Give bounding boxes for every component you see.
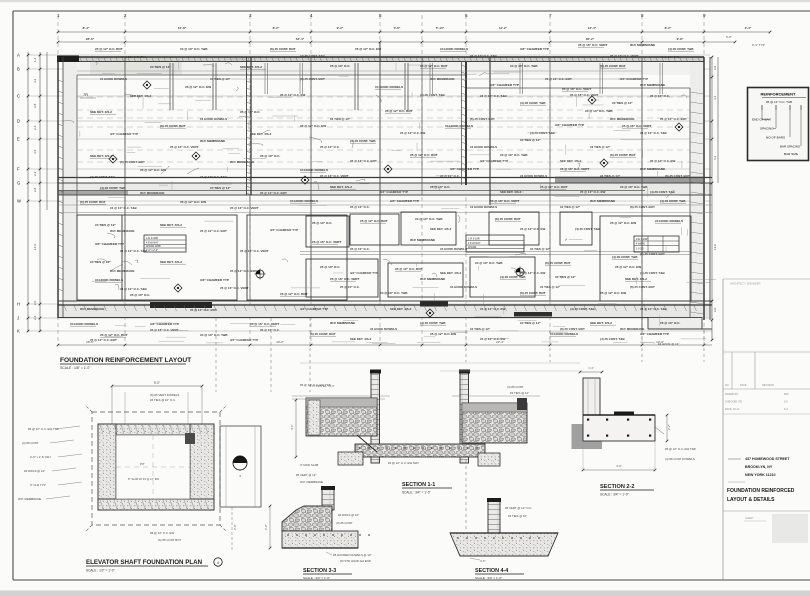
svg-text:#5 VERT @ 12" O.C.: #5 VERT @ 12" O.C. xyxy=(505,506,532,510)
shaft wall ring xyxy=(98,424,214,510)
svg-text:#4 HOOK DOWELS: #4 HOOK DOWELS xyxy=(450,285,477,289)
section1 right column xyxy=(459,370,470,464)
legend box reinforcement key xyxy=(748,88,809,161)
svg-text:(4) #6 CONT. T&B: (4) #6 CONT. T&B xyxy=(600,337,626,341)
svg-text:#5 @ 16" O.C. VERT: #5 @ 16" O.C. VERT xyxy=(170,145,199,149)
top wall inner line xyxy=(58,61,704,63)
svg-text:437 HOMEWOOD STREET: 437 HOMEWOOD STREET xyxy=(745,457,790,461)
svg-text:4'-6": 4'-6" xyxy=(480,559,486,563)
svg-text:16'-8": 16'-8" xyxy=(178,26,187,30)
svg-text:SEE DET. 4/S-2: SEE DET. 4/S-2 xyxy=(560,159,582,163)
svg-text:2-4: 2-4 xyxy=(33,315,37,320)
svg-text:7R: 7R xyxy=(83,92,88,97)
svg-text:3" MUD SLAB: 3" MUD SLAB xyxy=(300,463,318,467)
svg-text:#5 @ 12" O.C. EW: #5 @ 12" O.C. EW xyxy=(520,227,546,231)
room outlines xyxy=(77,212,691,301)
svg-text:#4 TIES @ 12": #4 TIES @ 12" xyxy=(210,77,231,81)
svg-text:NO OF BARS: NO OF BARS xyxy=(766,136,785,140)
svg-text:#4 HOOK DOWELS: #4 HOOK DOWELS xyxy=(100,77,127,81)
svg-text:NEW YORK 11210: NEW YORK 11210 xyxy=(745,473,776,477)
section4 grid extension xyxy=(465,460,467,532)
svg-text:#4 @ 10" O.C. T&B: #4 @ 10" O.C. T&B xyxy=(640,131,668,135)
section2 top dim xyxy=(579,366,604,373)
svg-text:#5 @ 10" O.C.: #5 @ 10" O.C. xyxy=(660,55,680,59)
svg-text:30'-2": 30'-2" xyxy=(586,37,595,41)
section4 label xyxy=(475,568,524,580)
svg-text:W.P. MEMBRANE: W.P. MEMBRANE xyxy=(610,117,634,121)
svg-text:#5 @ 12" O.C. BOT: #5 @ 12" O.C. BOT xyxy=(95,47,123,51)
section1 dim left xyxy=(290,399,297,459)
svg-text:#5 @ 16" O.C. VERT: #5 @ 16" O.C. VERT xyxy=(320,174,349,178)
svg-text:#5 @ 10" O.C.: #5 @ 10" O.C. xyxy=(260,328,280,332)
svg-text:H: H xyxy=(17,302,20,307)
svg-text:(4) #6 CONT. T&B: (4) #6 CONT. T&B xyxy=(570,307,596,311)
svg-text:3/4" CHAMFER TYP: 3/4" CHAMFER TYP xyxy=(640,332,669,336)
svg-text:#5 VERT @ 12": #5 VERT @ 12" xyxy=(296,473,316,477)
svg-text:FOUNDATION REINFORCEMENT LAYOU: FOUNDATION REINFORCEMENT LAYOUT xyxy=(60,357,191,364)
svg-text:#4 @ 10" O.C. T&B: #4 @ 10" O.C. T&B xyxy=(480,94,508,98)
svg-text:W/ STD HOOK EA END: W/ STD HOOK EA END xyxy=(340,559,371,563)
svg-text:#4 TIES @ 12": #4 TIES @ 12" xyxy=(560,205,581,209)
shaft plan title xyxy=(86,558,222,573)
svg-text:#5 @ 12" O.C. EW: #5 @ 12" O.C. EW xyxy=(140,168,166,172)
svg-text:9'-8": 9'-8" xyxy=(677,37,684,41)
svg-text:#5 @ 12" O.C. BOT: #5 @ 12" O.C. BOT xyxy=(385,109,413,113)
title block lower xyxy=(723,511,810,543)
svg-text:#4 HOOK DOWELS: #4 HOOK DOWELS xyxy=(370,327,397,331)
svg-text:SEE DET. 4/S-2: SEE DET. 4/S-2 xyxy=(160,260,182,264)
svg-text:#4 TIES @ 12": #4 TIES @ 12" xyxy=(520,321,541,325)
section3 label xyxy=(303,568,352,580)
svg-text:SCALE : 1/8" = 1'-0": SCALE : 1/8" = 1'-0" xyxy=(60,366,91,370)
svg-text:4'-6": 4'-6" xyxy=(290,424,294,430)
svg-text:#4 TIES @ 12": #4 TIES @ 12" xyxy=(540,285,561,289)
shaft inner cross lines xyxy=(116,435,190,499)
svg-text:#5 @ 16" O.C. VERT: #5 @ 16" O.C. VERT xyxy=(490,199,520,203)
svg-text:SEE DET. 4/S-2: SEE DET. 4/S-2 xyxy=(130,94,152,98)
top wall fill xyxy=(58,57,704,61)
svg-text:SEE DET. 4/S-2: SEE DET. 4/S-2 xyxy=(240,65,262,69)
svg-text:#4 @ 10" O.C. T&B: #4 @ 10" O.C. T&B xyxy=(475,261,503,265)
svg-text:#4 HOOK DOWELS: #4 HOOK DOWELS xyxy=(470,205,497,209)
section2 footing xyxy=(583,415,655,441)
svg-text:28'-6": 28'-6" xyxy=(86,37,95,41)
bottom wall band xyxy=(58,305,712,318)
svg-text:#5 @ 12" O.C. BOT: #5 @ 12" O.C. BOT xyxy=(260,191,287,195)
bottom dimension line xyxy=(57,340,712,346)
svg-text:MW: MW xyxy=(784,393,789,396)
plan annotation texts xyxy=(70,43,694,337)
section1 right pad xyxy=(478,453,500,466)
svg-text:#5 @ 12" O.C. EW: #5 @ 12" O.C. EW xyxy=(615,265,641,269)
svg-text:#4 HOOK DOWELS: #4 HOOK DOWELS xyxy=(300,168,328,172)
top wall pilaster stubs xyxy=(170,63,663,110)
svg-text:#4 @ 10" O.C. T&B: #4 @ 10" O.C. T&B xyxy=(120,287,148,291)
svg-text:3'-4" TYP: 3'-4" TYP xyxy=(752,43,765,47)
svg-text:SEE DET. 4/S-2: SEE DET. 4/S-2 xyxy=(390,307,412,311)
svg-text:3/4" CHAMFER TYP: 3/4" CHAMFER TYP xyxy=(380,190,408,194)
svg-text:(4) #6 CONT DOWELS: (4) #6 CONT DOWELS xyxy=(665,457,695,461)
right wall outer line xyxy=(703,57,705,320)
svg-text:#4 HOOK DOWELS: #4 HOOK DOWELS xyxy=(550,332,578,336)
mid corridor band xyxy=(58,183,712,195)
svg-text:2'-2": 2'-2" xyxy=(667,424,671,430)
svg-text:#5 @ 12" O.C. EW: #5 @ 12" O.C. EW xyxy=(430,332,456,336)
svg-text:#5 @ 12" O.C. EW: #5 @ 12" O.C. EW xyxy=(280,93,306,97)
svg-text:D: D xyxy=(17,119,20,124)
svg-text:(4) #6 CONT. T&B: (4) #6 CONT. T&B xyxy=(650,190,676,194)
corridor between room rows xyxy=(300,252,690,255)
left wall rebar ticks xyxy=(59,80,64,291)
section1 left pad xyxy=(338,452,363,465)
svg-text:#4 @ 10" O.C. T&B: #4 @ 10" O.C. T&B xyxy=(640,307,668,311)
svg-text:#4 @ 10" O.C. T&B: #4 @ 10" O.C. T&B xyxy=(620,185,648,189)
svg-text:J: J xyxy=(17,316,19,321)
svg-text:#5 @ 12" O.C. EW: #5 @ 12" O.C. EW xyxy=(580,190,606,194)
svg-text:(4) #6 CONT. T&B: (4) #6 CONT. T&B xyxy=(575,227,601,231)
section1 rebar dots xyxy=(359,447,478,449)
interior wall x250 double xyxy=(247,57,252,301)
svg-text:#5 @ 12" O.C. BOT: #5 @ 12" O.C. BOT xyxy=(660,117,687,121)
svg-text:(6) #5 CONT. BOT: (6) #5 CONT. BOT xyxy=(310,332,336,336)
svg-text:#4 HOOK DOWELS: #4 HOOK DOWELS xyxy=(290,199,318,203)
svg-text:#5 @ 10" O.C. EW T&B: #5 @ 10" O.C. EW T&B xyxy=(665,447,696,451)
right wall hatch ticks xyxy=(691,92,705,314)
svg-text:3/4" CHAMFER TYP: 3/4" CHAMFER TYP xyxy=(450,167,479,171)
svg-text:(4) #6 CONT. T&B: (4) #6 CONT. T&B xyxy=(100,186,126,190)
left wall outer line xyxy=(57,57,59,318)
left wall footing band xyxy=(63,57,78,318)
svg-text:#5 @ 16" O.C. VERT: #5 @ 16" O.C. VERT xyxy=(622,124,652,128)
plan title xyxy=(60,357,191,370)
svg-text:2-0: 2-0 xyxy=(713,307,717,312)
svg-text:#5 @ 12" O.C. EW: #5 @ 12" O.C. EW xyxy=(600,291,626,295)
svg-text:8'-4": 8'-4" xyxy=(83,26,90,30)
svg-text:(6) #5 CONT. BOT: (6) #5 CONT. BOT xyxy=(560,327,585,331)
svg-text:#5 @ 12" O.C. EW: #5 @ 12" O.C. EW xyxy=(185,85,211,89)
svg-text:4 6"x8 W-6": 4 6"x8 W-6" xyxy=(468,242,481,245)
svg-text:3/4" CHAMFER TYP: 3/4" CHAMFER TYP xyxy=(95,242,124,246)
svg-text:#4 @ 10" O.C. T&B: #4 @ 10" O.C. T&B xyxy=(110,206,138,210)
svg-text:(6) #5 CONT. BOT: (6) #5 CONT. BOT xyxy=(160,124,186,128)
bottom wall heavy segment 3 xyxy=(514,312,552,317)
svg-text:3/4" CHAMFER TYP: 3/4" CHAMFER TYP xyxy=(300,307,328,311)
svg-text:3/4" CHAMFER TYP: 3/4" CHAMFER TYP xyxy=(150,322,179,326)
section1 label xyxy=(402,482,452,495)
svg-text:BAR SIZE: BAR SIZE xyxy=(784,152,798,156)
svg-text:K: K xyxy=(17,329,20,334)
interior heavy line x466 xyxy=(462,62,467,185)
svg-text:#5 @ 12" O.C. EW: #5 @ 12" O.C. EW xyxy=(480,307,506,311)
section4 column xyxy=(487,498,501,533)
shaft wall hatch ticks xyxy=(100,425,208,510)
svg-text:W.P. MEMBRANE: W.P. MEMBRANE xyxy=(110,269,134,273)
top footing interior edge xyxy=(77,75,690,88)
grid line numbers xyxy=(57,13,706,18)
svg-text:#5 @ 10" O.C.: #5 @ 10" O.C. xyxy=(350,247,370,251)
svg-text:4: 4 xyxy=(217,561,219,565)
interior wall line x490 xyxy=(489,57,491,205)
top-left revision mark xyxy=(80,92,96,98)
svg-text:SEE DET. 4/S-2: SEE DET. 4/S-2 xyxy=(250,132,272,136)
svg-text:NO: NO xyxy=(725,384,729,387)
svg-text:#5 @ 16" O.C. VERT: #5 @ 16" O.C. VERT xyxy=(562,87,592,91)
shaft top dimension xyxy=(111,381,204,424)
svg-text:28'-6": 28'-6" xyxy=(86,340,94,344)
plan annotation texts batch2 xyxy=(80,54,690,342)
left wall inner line xyxy=(62,57,64,318)
svg-text:L-R 3-10R: L-R 3-10R xyxy=(146,236,158,240)
svg-text:#5 @ 12" O.C. BOT: #5 @ 12" O.C. BOT xyxy=(410,153,438,157)
section1 ground lines xyxy=(292,396,540,399)
svg-text:(6) #5 CONT BOT: (6) #5 CONT BOT xyxy=(158,538,181,542)
svg-text:2-0: 2-0 xyxy=(33,300,37,305)
svg-text:8" SLAB W/ #4 @ 12" EW: 8" SLAB W/ #4 @ 12" EW xyxy=(128,477,160,481)
misc short segments xyxy=(76,58,716,326)
slab reinforcement dashed lines xyxy=(77,97,690,162)
svg-text:#5 @ 16" O.C. VERT: #5 @ 16" O.C. VERT xyxy=(230,206,259,210)
svg-text:#4 HOOK DOWELS: #4 HOOK DOWELS xyxy=(470,145,497,149)
svg-text:W: W xyxy=(17,199,21,204)
svg-text:#5 @ 10" O.C.: #5 @ 10" O.C. xyxy=(130,293,150,297)
svg-text:#5 @ 10" O.C.: #5 @ 10" O.C. xyxy=(340,285,360,289)
horizontal grid lines xyxy=(28,55,712,331)
svg-text:#4 TIES @ 12": #4 TIES @ 12" xyxy=(590,145,611,149)
svg-text:3/4" CHAMFER TYP: 3/4" CHAMFER TYP xyxy=(230,338,258,342)
svg-text:#5 @ 12" O.C. EW: #5 @ 12" O.C. EW xyxy=(120,55,146,59)
svg-text:4-2: 4-2 xyxy=(33,78,37,83)
room divider x122 xyxy=(121,215,123,300)
svg-text:(6) #5 CONT. BOT: (6) #5 CONT. BOT xyxy=(300,77,325,81)
svg-text:SECTION 3-3: SECTION 3-3 xyxy=(303,568,336,574)
svg-text:3/4" CHAMFER TYP: 3/4" CHAMFER TYP xyxy=(200,278,229,282)
svg-text:#4 @ 10" O.C. T&B: #4 @ 10" O.C. T&B xyxy=(500,153,528,157)
svg-text:SEE DET. 4/S-2: SEE DET. 4/S-2 xyxy=(350,337,372,341)
svg-text:#5 @ 16" O.C. VERT: #5 @ 16" O.C. VERT xyxy=(312,240,342,244)
svg-text:(6) #5 CONT. BOT: (6) #5 CONT. BOT xyxy=(600,64,626,68)
svg-text:(4) #6 CONT. T&B: (4) #6 CONT. T&B xyxy=(90,175,116,179)
svg-text:SHEET: SHEET xyxy=(745,516,754,520)
bottom wall mid line xyxy=(58,304,712,306)
svg-text:#5 @ 16" O.C. VERT: #5 @ 16" O.C. VERT xyxy=(570,93,599,97)
svg-text:#4 @ 10" O.C. T&B: #4 @ 10" O.C. T&B xyxy=(200,333,228,337)
svg-text:8'-2": 8'-2" xyxy=(665,26,672,30)
mid wall upper pair xyxy=(58,178,712,184)
svg-text:#4 @ 10" O.C. T&B: #4 @ 10" O.C. T&B xyxy=(180,47,208,51)
svg-text:W.P. MEMBRANE: W.P. MEMBRANE xyxy=(590,199,615,203)
svg-text:W.P. MEMBRANE: W.P. MEMBRANE xyxy=(620,327,644,331)
svg-text:#5 @ 16" O.C. VERT: #5 @ 16" O.C. VERT xyxy=(330,277,360,281)
section2 gray shadow xyxy=(572,424,603,449)
svg-text:ARCHITECT / ENGINEER: ARCHITECT / ENGINEER xyxy=(730,282,761,286)
svg-text:#5 @ 16" O.C. VERT: #5 @ 16" O.C. VERT xyxy=(220,286,249,290)
svg-text:#4 TIES @ 12": #4 TIES @ 12" xyxy=(95,223,116,227)
corridor lower lines xyxy=(58,205,712,213)
svg-text:A: A xyxy=(17,53,20,58)
svg-text:#4 TIES @ 12": #4 TIES @ 12" xyxy=(90,260,111,264)
interior wall line x642 xyxy=(641,57,643,330)
svg-text:#4 TIES @ 12": #4 TIES @ 12" xyxy=(600,174,621,178)
section2 bottom dim xyxy=(582,441,657,471)
svg-text:2-8: 2-8 xyxy=(33,187,37,192)
svg-text:(6) #5 CONT. BOT: (6) #5 CONT. BOT xyxy=(495,217,521,221)
svg-text:3/4" CHAMFER TYP: 3/4" CHAMFER TYP xyxy=(270,228,298,232)
svg-text:3-8: 3-8 xyxy=(33,103,37,108)
svg-text:#4 TIES @ 10": #4 TIES @ 10" xyxy=(508,514,527,518)
svg-text:3" CLR TYP: 3" CLR TYP xyxy=(30,483,46,487)
svg-text:3/4" CHAMFER TYP: 3/4" CHAMFER TYP xyxy=(490,83,519,87)
svg-text:3/4" CHAMFER TYP: 3/4" CHAMFER TYP xyxy=(110,132,138,136)
svg-text:W.P. MEMBRANE: W.P. MEMBRANE xyxy=(630,43,655,47)
circle symbols xyxy=(255,267,526,280)
svg-text:W.P. MEMBRANE: W.P. MEMBRANE xyxy=(140,191,164,195)
svg-text:C: C xyxy=(17,94,20,99)
svg-text:2'-8": 2'-8" xyxy=(233,524,237,530)
svg-text:#5 @ 12" O.C. EW: #5 @ 12" O.C. EW xyxy=(300,124,326,128)
svg-text:REINFORCEMENT: REINFORCEMENT xyxy=(761,92,796,97)
title block address xyxy=(728,457,790,482)
svg-text:#4 TIES @ 10" O.C.: #4 TIES @ 10" O.C. xyxy=(150,398,176,402)
svg-text:W4xW4 WWF: W4xW4 WWF xyxy=(146,245,162,248)
top wall rebar ticks xyxy=(80,58,700,62)
left footing interior edge xyxy=(76,75,78,300)
section1 left column xyxy=(370,370,381,464)
section3 slab xyxy=(282,531,358,548)
svg-text:4-6: 4-6 xyxy=(33,149,37,154)
svg-text:14-6: 14-6 xyxy=(33,244,37,250)
svg-text:SEE DET. 4/S-2: SEE DET. 4/S-2 xyxy=(90,154,112,158)
vertical grid lines xyxy=(58,15,704,345)
svg-text:#4 HOOK DOWELS: #4 HOOK DOWELS xyxy=(520,174,547,178)
svg-text:(6) #5 CONT. BOT: (6) #5 CONT. BOT xyxy=(470,117,495,121)
svg-text:#5 @ 12" O.C. BOT: #5 @ 12" O.C. BOT xyxy=(90,338,117,342)
title block frame xyxy=(723,279,810,580)
svg-text:1/8: 1/8 xyxy=(784,401,788,404)
svg-text:SEE DET. 4/S-2: SEE DET. 4/S-2 xyxy=(330,185,352,189)
svg-text:BROOKLYN, NY: BROOKLYN, NY xyxy=(745,465,773,469)
svg-text:S-2: S-2 xyxy=(784,408,789,411)
svg-text:W.P. MEMBRANE: W.P. MEMBRANE xyxy=(80,307,104,311)
svg-text:#5 @ 10" O.C.: #5 @ 10" O.C. xyxy=(320,265,340,269)
svg-text:3/4" CHAMFER TYP: 3/4" CHAMFER TYP xyxy=(480,159,508,163)
right wall interior edge xyxy=(689,88,691,320)
svg-text:#5 @ 12" O.C. EW: #5 @ 12" O.C. EW xyxy=(150,531,174,535)
svg-text:2'-8": 2'-8" xyxy=(264,524,268,530)
leader lines xyxy=(62,61,687,290)
svg-text:#5 @ 16" O.C. VERT: #5 @ 16" O.C. VERT xyxy=(250,322,280,326)
svg-text:(4) #6 CONT. T&B: (4) #6 CONT. T&B xyxy=(640,271,666,275)
svg-text:DATE: 04-12: DATE: 04-12 xyxy=(725,408,740,411)
svg-text:SCALE : 1/2" = 1'-0": SCALE : 1/2" = 1'-0" xyxy=(86,569,115,573)
svg-text:(8) #6 VERT DOWELS: (8) #6 VERT DOWELS xyxy=(150,393,179,397)
svg-text:#4 TIES @ 12": #4 TIES @ 12" xyxy=(530,247,551,251)
svg-text:SCALE : 3/4" = 1'-0": SCALE : 3/4" = 1'-0" xyxy=(402,491,431,495)
mid wall dark segment right xyxy=(555,177,705,184)
svg-text:(4) #6 CONT. T&B: (4) #6 CONT. T&B xyxy=(612,255,638,259)
section3 notes xyxy=(296,473,372,563)
svg-text:1-4: 1-4 xyxy=(33,57,37,62)
svg-text:#4 TIES @ 12": #4 TIES @ 12" xyxy=(612,101,633,105)
svg-text:#5 @ 10" O.C.: #5 @ 10" O.C. xyxy=(350,205,370,209)
svg-text:W.P. MEMBRANE: W.P. MEMBRANE xyxy=(640,83,665,87)
svg-text:(4) #6 CONT. T&B: (4) #6 CONT. T&B xyxy=(420,93,446,97)
schedule table left xyxy=(144,235,186,252)
svg-text:SEE DET. 4/S-2: SEE DET. 4/S-2 xyxy=(90,110,112,114)
section2 side notes xyxy=(640,342,696,461)
svg-text:#5 @ 12" O.C. BOT: #5 @ 12" O.C. BOT xyxy=(230,269,257,273)
svg-text:PIT: PIT xyxy=(140,462,145,466)
svg-text:#4 @ 10" O.C. T&B: #4 @ 10" O.C. T&B xyxy=(200,175,228,179)
section3 column xyxy=(321,486,335,510)
svg-text:#4 @ 10" O.C. T&B: #4 @ 10" O.C. T&B xyxy=(470,54,498,58)
svg-text:#4 HOOK DOWELS: #4 HOOK DOWELS xyxy=(445,124,473,128)
svg-text:(6) #5 CONT. BOT: (6) #5 CONT. BOT xyxy=(640,252,665,256)
svg-text:W.P. MEMBRANE: W.P. MEMBRANE xyxy=(430,77,454,81)
keyed note diamonds xyxy=(109,81,683,317)
svg-text:#5 @ 10" O.C.: #5 @ 10" O.C. xyxy=(650,94,670,98)
svg-text:3'-4": 3'-4" xyxy=(745,26,752,30)
svg-text:SPACING: SPACING xyxy=(760,127,774,131)
svg-text:#4 @ 10" O.C. T&B: #4 @ 10" O.C. T&B xyxy=(585,109,613,113)
right dimension chain xyxy=(711,56,718,342)
svg-text:#5 @ 16" O.C. VERT: #5 @ 16" O.C. VERT xyxy=(578,43,608,47)
top dimension lines xyxy=(57,26,772,43)
bottom wall heavy segment 1 xyxy=(150,302,212,308)
shaft dark block xyxy=(185,433,195,444)
svg-text:#4 TIES @ 12": #4 TIES @ 12" xyxy=(470,327,491,331)
svg-text:(6) #5 CONT. BOT: (6) #5 CONT. BOT xyxy=(665,174,690,178)
shaft bottom annotations xyxy=(150,507,237,552)
svg-text:3/4" CHAMFER TYP: 3/4" CHAMFER TYP xyxy=(390,199,419,203)
left dimension chain xyxy=(27,52,47,332)
svg-text:6-2: 6-2 xyxy=(713,155,717,160)
svg-text:#5 @ 12" O.C. EW: #5 @ 12" O.C. EW xyxy=(355,47,381,51)
svg-text:#4 TIES @ 12": #4 TIES @ 12" xyxy=(150,65,171,69)
svg-text:#5 @ 12" O.C. EW: #5 @ 12" O.C. EW xyxy=(520,271,546,275)
svg-text:BAR SPACING: BAR SPACING xyxy=(780,145,801,149)
svg-text:SCALE : 3/4" = 1'-0": SCALE : 3/4" = 1'-0" xyxy=(303,576,330,580)
svg-text:(4) #6 CONT. T&B: (4) #6 CONT. T&B xyxy=(300,54,326,58)
svg-text:W.P. MEMBRANE: W.P. MEMBRANE xyxy=(640,167,665,171)
svg-text:#4 TIES @ 12": #4 TIES @ 12" xyxy=(510,391,529,395)
svg-text:(6) #5 CONT. BOT: (6) #5 CONT. BOT xyxy=(630,285,655,289)
svg-text:W.P. MEMBRANE: W.P. MEMBRANE xyxy=(18,497,41,501)
svg-text:#5 @ 10" O.C. EW T&B: #5 @ 10" O.C. EW T&B xyxy=(28,427,59,431)
svg-text:#5 @ 12" O.C. EW: #5 @ 12" O.C. EW xyxy=(180,200,206,204)
bottom wall lower edge xyxy=(58,317,648,319)
section2 black bar xyxy=(614,412,634,416)
svg-text:3/4" CHAMFER TYP: 3/4" CHAMFER TYP xyxy=(520,47,549,51)
svg-text:#4 @ 10" O.C. T&B: #4 @ 10" O.C. T&B xyxy=(510,64,538,68)
svg-text:(3) #6 CONT: (3) #6 CONT xyxy=(22,441,39,445)
section2 right dim xyxy=(655,414,671,443)
svg-text:#4 @ 10" O.C. T&B: #4 @ 10" O.C. T&B xyxy=(415,217,443,221)
section4 slab xyxy=(450,533,558,556)
svg-text:W4xW4: W4xW4 xyxy=(468,246,477,249)
svg-text:SEE DET. 4/S-2: SEE DET. 4/S-2 xyxy=(440,271,462,275)
svg-text:4-4: 4-4 xyxy=(713,95,717,100)
svg-text:#5 @ 10" O.C.: #5 @ 10" O.C. xyxy=(260,154,280,158)
section1 diagonal brace xyxy=(357,435,377,452)
svg-text:#5 @ 12" O.C. EW: #5 @ 12" O.C. EW xyxy=(650,159,676,163)
svg-text:#4 HOOK @ 12": #4 HOOK @ 12" xyxy=(658,342,679,346)
svg-text:2-E 3-10R: 2-E 3-10R xyxy=(636,238,648,241)
svg-text:#5 @ 12" O.C. BOT: #5 @ 12" O.C. BOT xyxy=(350,159,377,163)
svg-text:1-0 2-0: 1-0 2-0 xyxy=(636,248,644,251)
svg-text:52'-4": 52'-4" xyxy=(296,37,305,41)
interior wall line x422 xyxy=(421,57,423,195)
section1 mat slab xyxy=(355,444,485,457)
